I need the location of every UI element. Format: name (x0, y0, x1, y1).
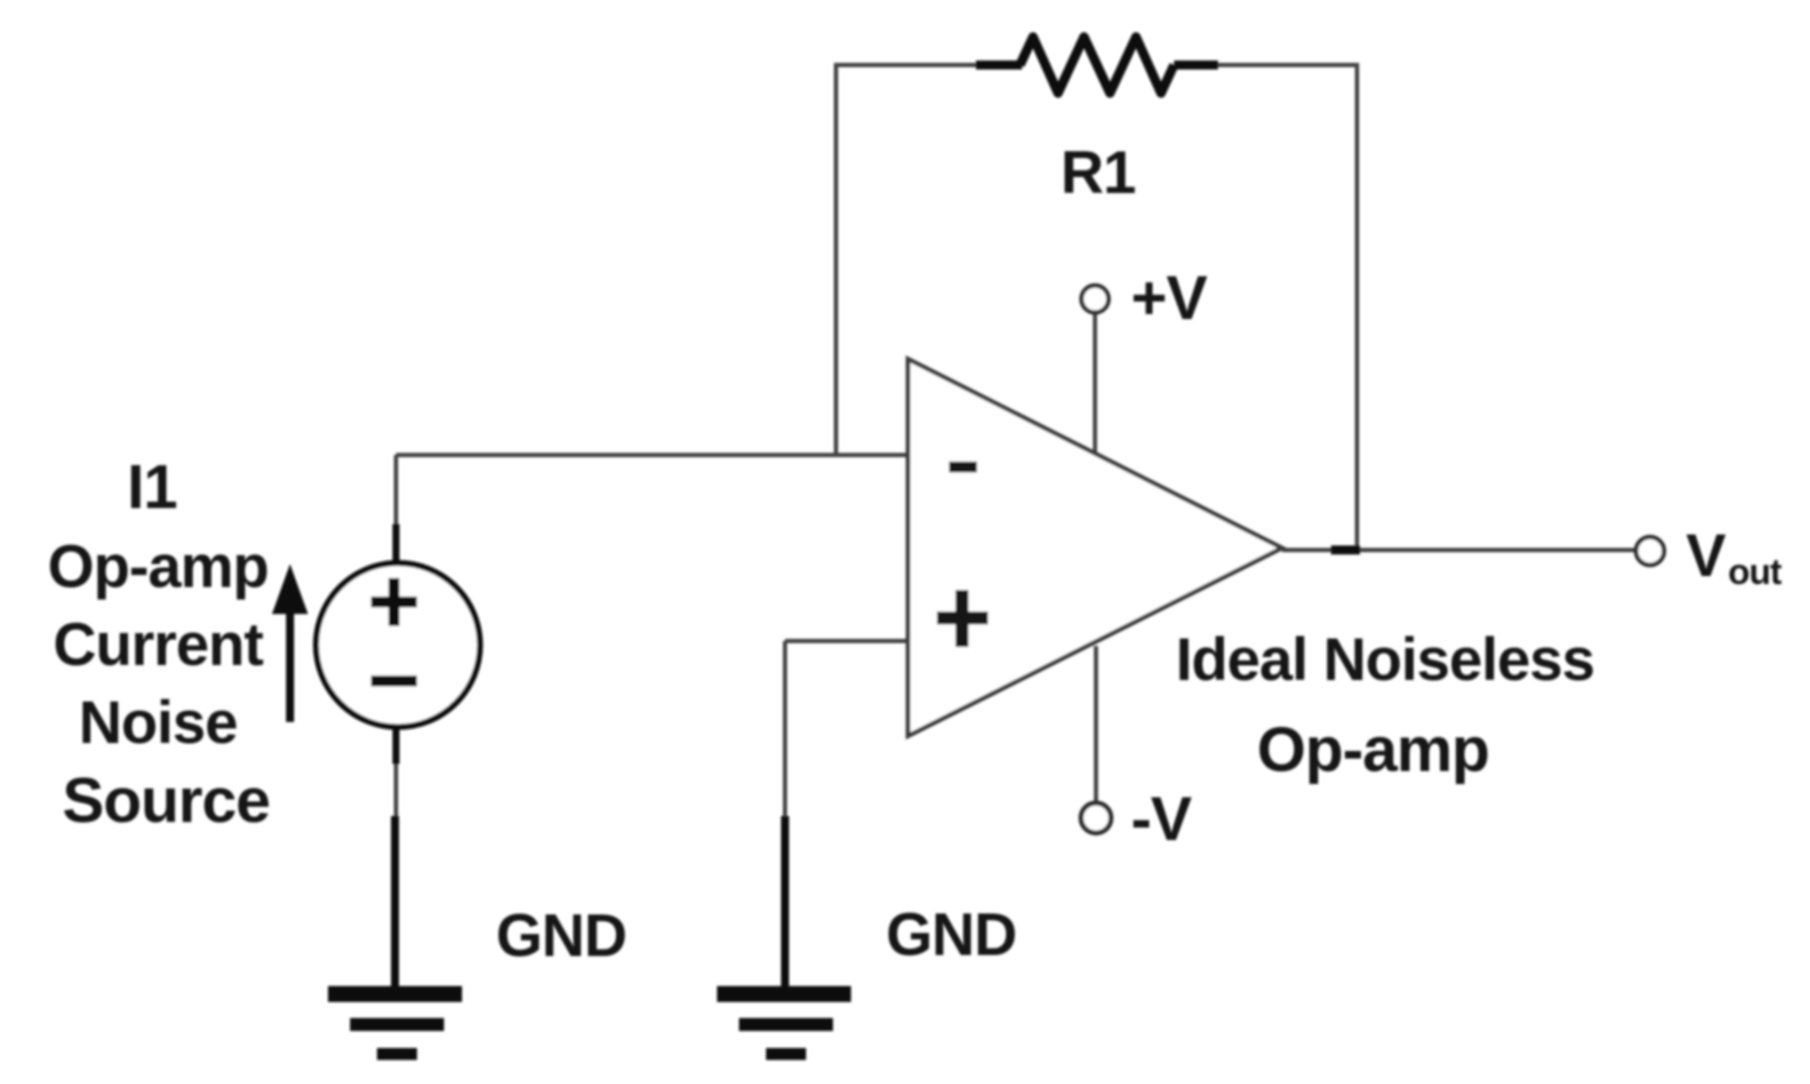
svg-text:Source: Source (62, 766, 270, 836)
svg-text:out: out (1728, 551, 1782, 592)
svg-text:Op-amp: Op-amp (1257, 715, 1489, 785)
svg-text:+V: +V (1131, 264, 1207, 333)
svg-text:I1: I1 (127, 453, 177, 522)
svg-text:GND: GND (886, 901, 1016, 968)
svg-text:V: V (1686, 522, 1726, 589)
svg-text:Current: Current (53, 611, 264, 678)
svg-text:Ideal Noiseless: Ideal Noiseless (1176, 626, 1595, 693)
svg-text:Noise: Noise (79, 689, 237, 756)
svg-text:-V: -V (1131, 785, 1192, 854)
svg-text:Op-amp: Op-amp (48, 533, 269, 600)
svg-text:R1: R1 (1061, 139, 1136, 206)
svg-text:GND: GND (496, 902, 626, 969)
